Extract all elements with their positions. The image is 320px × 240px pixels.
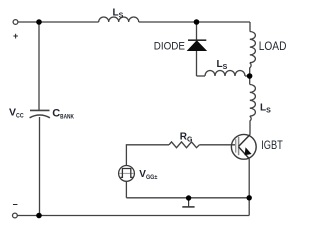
wire top rail right — [139, 21, 250, 23]
node junction emitter — [247, 195, 252, 200]
wire L_S coil to IGBT collector — [250, 116, 251, 135]
wire diode branch vertical — [196, 22, 198, 76]
wire left rail lower — [39, 117, 41, 216]
wire VGG bottom lead — [125, 181, 127, 198]
wire diode corner to mid coil — [197, 75, 206, 77]
node junction ground — [186, 195, 191, 200]
terminal minus (bottom-left) — [13, 213, 18, 218]
node junction top-left — [36, 19, 42, 25]
wire LOAD coil to node — [250, 63, 251, 76]
inductor LOAD coil — [250, 32, 256, 63]
node junction bottom-left — [36, 213, 42, 219]
wire top rail left — [18, 21, 99, 23]
svg-text:+: + — [13, 31, 18, 41]
inductor L_S top coil — [99, 17, 139, 22]
wire right rail top corner — [249, 22, 251, 32]
svg-text:LOAD: LOAD — [259, 41, 287, 53]
wire IGBT emitter down — [248, 159, 250, 216]
node junction load/ls — [247, 73, 253, 79]
svg-text:DIODE: DIODE — [154, 40, 185, 52]
ground — [182, 199, 194, 207]
wire mid coil to node — [245, 75, 250, 77]
transistor IGBT — [231, 134, 256, 159]
wire bottom rail — [17, 215, 249, 217]
node junction diode top — [194, 19, 200, 25]
capacitor C_BANK — [30, 110, 50, 117]
wire emitter return rail — [126, 197, 249, 199]
terminal plus (top-left) — [13, 20, 18, 25]
wire resistor to IGBT gate — [199, 144, 235, 146]
wire node to L_S right coil — [249, 76, 251, 85]
wire gate drive corner — [126, 145, 169, 166]
svg-text:−: − — [13, 200, 18, 210]
inductor L_S right coil — [250, 85, 256, 117]
inductor L_S mid coil — [205, 71, 245, 77]
source V_GG pulse generator — [119, 166, 135, 182]
wire left rail upper — [38, 22, 40, 110]
resistor R_G — [169, 142, 199, 148]
svg-text:IGBT: IGBT — [261, 140, 283, 152]
diode D (freewheel) — [188, 40, 207, 50]
